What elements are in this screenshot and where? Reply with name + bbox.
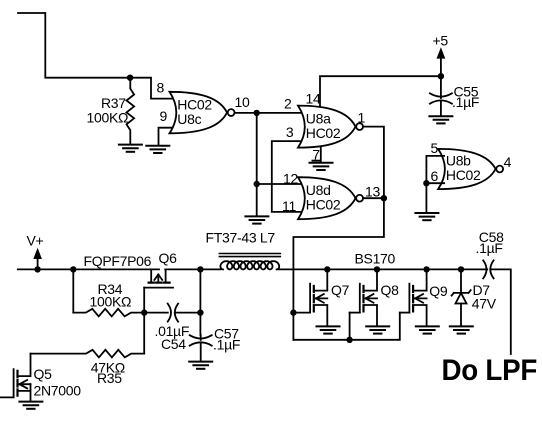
transistor Q6 (FQPF7P06) xyxy=(84,250,178,288)
wire (C58 to LPF) xyxy=(490,269,511,354)
wire (V+ rail to Q6 source) xyxy=(18,268,159,270)
capacitor C54 xyxy=(155,304,190,352)
svg-text:10: 10 xyxy=(235,94,250,110)
node M (Q8 drain) xyxy=(374,266,380,272)
ground (Q7) xyxy=(317,326,340,333)
svg-text:Q9: Q9 xyxy=(429,283,448,299)
svg-text:2N7000: 2N7000 xyxy=(34,382,82,398)
node E (U8b pin 6) xyxy=(423,180,429,186)
ground (U8c pin 9) xyxy=(146,146,169,153)
svg-text:.1µF: .1µF xyxy=(452,94,479,110)
wire (U8c pin 9) xyxy=(159,128,176,146)
svg-text:HC02: HC02 xyxy=(306,125,341,141)
svg-text:Q8: Q8 xyxy=(381,282,400,298)
node A (R37 / U8c pin8) xyxy=(127,75,133,81)
transistor Q9 (Q9) xyxy=(400,269,448,325)
wire (U8a pin 7 ground stub) xyxy=(320,148,322,163)
ground (C55) xyxy=(429,116,452,123)
svg-text:6: 6 xyxy=(431,168,439,184)
resistor R37 xyxy=(87,78,135,144)
resistor R34 xyxy=(73,281,144,316)
svg-text:47V: 47V xyxy=(472,295,497,311)
ground (C57) xyxy=(189,362,212,369)
svg-text:2: 2 xyxy=(284,96,292,112)
svg-text:U8c: U8c xyxy=(177,111,201,127)
nor gate U8a xyxy=(298,106,363,148)
transistor Q8 (Q8) xyxy=(350,269,399,325)
node K (Q6 drain / L7) xyxy=(197,266,203,272)
node L (Q7 drain) xyxy=(324,266,330,272)
inductor L7 (FT37-43) xyxy=(206,229,281,269)
wire (top-left input, down to U8c pin 8) xyxy=(18,13,176,99)
ground (Q9) xyxy=(416,326,439,333)
svg-text:HC02: HC02 xyxy=(306,196,341,212)
ground (R37) xyxy=(119,145,142,152)
capacitor C57 xyxy=(190,326,240,361)
svg-text:R35: R35 xyxy=(97,370,122,386)
wire (node to C54) xyxy=(144,312,168,314)
svg-text:.1µF: .1µF xyxy=(476,240,503,256)
transistor Q5 (2N7000) xyxy=(0,354,81,401)
ground (U8a pin 7) xyxy=(310,163,333,170)
svg-text:5: 5 xyxy=(431,140,439,156)
svg-text:FT37-43 L7: FT37-43 L7 xyxy=(206,229,276,245)
svg-text:Q5: Q5 xyxy=(34,366,53,382)
ground (D7) xyxy=(450,326,473,333)
wire (U8d pin 12) xyxy=(257,183,304,185)
transistor Q7 (Q7) xyxy=(293,269,349,325)
wire (pin 3 to pin 11 link) xyxy=(272,141,304,212)
node G (V+) xyxy=(34,266,40,272)
svg-text:Q6: Q6 xyxy=(159,250,178,266)
svg-text:HC02: HC02 xyxy=(446,167,481,183)
node O (Q7 gate / bus) xyxy=(290,309,296,315)
node C (pin 12 tap) xyxy=(254,181,260,187)
svg-text:+5: +5 xyxy=(433,32,449,48)
nor gate U8b xyxy=(438,149,503,189)
resistor R35 xyxy=(31,350,145,386)
wire (Q6 drain onward) xyxy=(165,268,220,270)
svg-text:100KΩ: 100KΩ xyxy=(87,109,129,125)
node P (Q8 gate / bus) xyxy=(346,337,352,343)
wire (U8a pin 14 to +5 rail) xyxy=(320,76,441,105)
svg-text:Q7: Q7 xyxy=(331,282,350,298)
capacitor C55 xyxy=(430,76,479,115)
svg-text:3: 3 xyxy=(286,124,294,140)
capacitor C58 xyxy=(476,229,505,279)
svg-text:100KΩ: 100KΩ xyxy=(90,294,132,310)
node N (Q9 drain) xyxy=(423,266,429,272)
node D (paralleled outputs) xyxy=(381,195,387,201)
svg-text:9: 9 xyxy=(160,108,168,124)
svg-text:8: 8 xyxy=(157,80,165,96)
node F (+5 / C55) xyxy=(438,73,444,79)
power +5 xyxy=(433,32,449,76)
node J (C54/C57) xyxy=(197,309,203,315)
svg-text:11: 11 xyxy=(282,198,296,214)
wire (bottom gate bus) xyxy=(293,313,399,340)
wire (U8c out pin 10 to U8a pin 2) xyxy=(235,112,304,114)
svg-text:C54: C54 xyxy=(161,336,186,352)
wire (Q6 gate down to R34/C54/R35 node) xyxy=(143,288,145,354)
wire (L7 to PA drains) xyxy=(279,268,488,270)
wire (U8b pins 5-6 tied to ground) xyxy=(426,156,444,213)
node Q (D7 tap) xyxy=(458,266,464,272)
svg-text:13: 13 xyxy=(365,183,380,199)
ground (U8b inputs) xyxy=(415,213,438,220)
node H (R34 top) xyxy=(70,266,76,272)
svg-text:.1µF: .1µF xyxy=(213,336,240,352)
svg-text:Do LPF: Do LPF xyxy=(442,354,538,387)
ground (Q8) xyxy=(366,326,389,333)
wire (drain node down to C57) xyxy=(199,269,201,335)
svg-text:12: 12 xyxy=(283,170,298,186)
ground (Q5) xyxy=(19,402,42,409)
node B (pin10/pin2 bus) xyxy=(254,110,260,116)
power V+ xyxy=(27,233,44,270)
node I (Q6 gate node) xyxy=(141,309,147,315)
svg-text:BS170: BS170 xyxy=(355,251,396,267)
svg-text:FQPF7P06: FQPF7P06 xyxy=(84,253,152,269)
nor gate U8d xyxy=(298,177,363,219)
pin 7 underline xyxy=(312,160,319,162)
svg-text:14: 14 xyxy=(306,90,321,106)
wire (input bus down to ground) xyxy=(256,113,258,216)
wire (down to R34) xyxy=(72,269,74,312)
nor gate U8c xyxy=(170,92,235,134)
diode D7 (zener 47V) xyxy=(452,269,497,326)
svg-text:4: 4 xyxy=(504,154,512,170)
wire (C54 to C57 node) xyxy=(175,312,201,314)
svg-text:V+: V+ xyxy=(27,233,44,249)
wire (U8a/U8d outputs to PA gate bus) xyxy=(293,127,384,340)
ground (input bus) xyxy=(245,216,268,223)
